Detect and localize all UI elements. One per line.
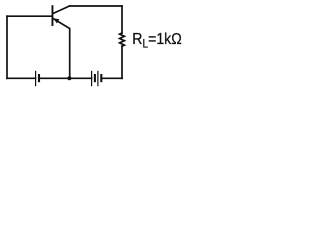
svg-text:RL=1kΩ: RL=1kΩ [132, 30, 181, 50]
